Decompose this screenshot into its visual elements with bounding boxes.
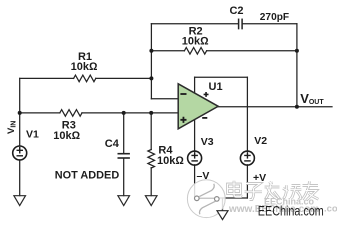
op-amp U1 negative supply minus sign (202, 117, 207, 119)
source V2 (240, 151, 254, 165)
wire output (218, 106, 332, 108)
wire R2 row right (207, 50, 297, 52)
wire V2 stem (246, 77, 248, 151)
ground R4 (145, 196, 157, 206)
watermark logo circle (187, 180, 225, 218)
resistor R2 (184, 48, 206, 55)
resistor R4 (148, 150, 155, 169)
ground C4 (118, 196, 130, 206)
wire top C2 feedback right segment (243, 23, 297, 25)
op-amp U1 (178, 84, 218, 129)
resistor R1 (74, 75, 96, 82)
wire R2 row left (151, 50, 184, 52)
wire R3 row right / non-inverting input (82, 112, 178, 114)
node R2/C2 inverting junction (149, 49, 153, 53)
wire Vin rail (19, 78, 21, 146)
wire R4 stem (150, 113, 152, 150)
wire ground stub (222, 198, 224, 211)
watermark chinese characters (228, 181, 319, 200)
node C4 junction (122, 111, 126, 115)
svg-text:10kΩ: 10kΩ (182, 35, 209, 47)
wire R1 row left (20, 77, 74, 79)
svg-text:C4: C4 (105, 138, 120, 150)
node R1 inverting junction (149, 76, 153, 80)
wire supply ground bus (195, 197, 248, 199)
svg-text:.co: .co (324, 204, 337, 215)
capacitor C4 (118, 154, 129, 158)
source V1 (13, 146, 27, 160)
svg-text:10kΩ: 10kΩ (157, 155, 184, 167)
source V3 (188, 151, 202, 165)
svg-text:U1: U1 (209, 81, 223, 93)
svg-text:NOT ADDED: NOT ADDED (55, 169, 119, 181)
wire V3 bottom (194, 165, 196, 198)
wire top C2 feedback left segment (151, 23, 238, 25)
svg-text:270pF: 270pF (260, 11, 290, 23)
ground V1 (14, 196, 26, 206)
wire inverting input (151, 98, 178, 100)
ground supply (217, 211, 228, 220)
watermark url text gray (228, 197, 337, 216)
resistor R3 (60, 110, 82, 117)
op-amp U1 inverting input minus sign (180, 93, 186, 95)
svg-text:EEChina.com: EEChina.com (258, 203, 324, 219)
svg-text:V2: V2 (254, 135, 267, 147)
wire R1 row right (96, 77, 152, 79)
wire C4 stem (123, 113, 125, 153)
wire positive supply top (195, 76, 248, 78)
wire R4 to ground (150, 168, 152, 196)
wire output feedback rail (296, 24, 298, 107)
wire op-amp bottom to V3 (194, 119, 196, 151)
svg-text:10kΩ: 10kΩ (53, 130, 80, 142)
svg-text:C2: C2 (229, 5, 243, 17)
wire C4 to ground (123, 159, 125, 196)
wire V2 bottom (246, 165, 248, 198)
node output feedback top junction (295, 49, 299, 53)
wire V1 to ground (19, 160, 21, 196)
op-amp U1 non-inverting input plus sign (180, 117, 186, 123)
op-amp U1 positive supply plus sign (204, 92, 209, 97)
svg-text:V1: V1 (26, 129, 39, 141)
wire supply to op-amp top (194, 77, 196, 93)
wire R3 row left (20, 112, 60, 114)
node output junction (295, 105, 299, 109)
wire inverting feedback rail (150, 24, 152, 99)
node Vin junction (18, 111, 22, 115)
capacitor C2 (239, 19, 243, 28)
svg-text:10kΩ: 10kΩ (71, 61, 98, 73)
svg-text:V3: V3 (201, 136, 214, 148)
node R4 junction (149, 111, 153, 115)
